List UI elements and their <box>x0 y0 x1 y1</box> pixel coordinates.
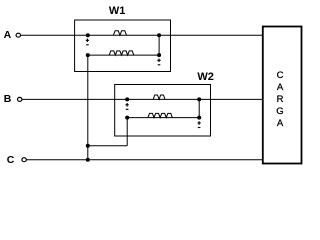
W1 voltage coil <box>109 51 134 55</box>
junction dot W2 top-left <box>125 97 129 101</box>
junction dot W2 bottom-right <box>197 116 201 120</box>
W1 polarity mark bottom-right <box>157 59 160 65</box>
W2 polarity mark top-left <box>125 103 128 109</box>
svg-text:R: R <box>277 94 284 105</box>
W1 current coil <box>113 31 126 35</box>
W1 right vertical wire <box>158 35 160 55</box>
terminal A <box>16 33 20 37</box>
svg-text:A: A <box>277 118 284 129</box>
junction dot W2 top-right <box>197 97 201 101</box>
wire horizontal connector <box>88 145 127 147</box>
W2 right vertical wire <box>198 99 200 117</box>
W1 voltage coil wire <box>88 54 159 56</box>
terminal C <box>22 158 26 162</box>
junction dot W1 top-left <box>86 33 90 37</box>
terminal B <box>18 97 22 101</box>
wire line C <box>26 159 262 161</box>
W2 voltage coil <box>148 113 172 117</box>
svg-text:B: B <box>4 93 12 105</box>
W2 voltage coil wire <box>127 117 199 119</box>
junction dot W1 top-right <box>157 33 161 37</box>
W2 current coil <box>153 95 165 99</box>
wattmeter W1 box <box>75 20 171 72</box>
svg-text:A: A <box>277 82 284 93</box>
svg-text:W1: W1 <box>109 5 126 17</box>
junction dot W2 bottom-left <box>125 116 129 120</box>
junction dot connector <box>86 144 90 148</box>
wire W1 voltage coil to line C <box>87 55 89 160</box>
junction dot W1 bottom-right <box>157 53 161 57</box>
wire line A <box>21 34 263 36</box>
W2 polarity mark bottom-right <box>197 121 200 127</box>
junction dot W1 bottom-left <box>86 53 90 57</box>
svg-text:A: A <box>4 29 12 41</box>
svg-text:W2: W2 <box>197 71 214 83</box>
svg-text:C: C <box>7 154 15 166</box>
W1 polarity mark top-left <box>86 39 89 45</box>
junction dot on line C <box>86 158 90 162</box>
wattmeter W2 box <box>115 85 211 137</box>
svg-text:G: G <box>276 106 283 117</box>
svg-text:C: C <box>277 70 284 81</box>
wire W2 voltage coil down <box>126 118 128 146</box>
wire line B <box>22 98 263 100</box>
load CARGA box <box>263 27 302 164</box>
